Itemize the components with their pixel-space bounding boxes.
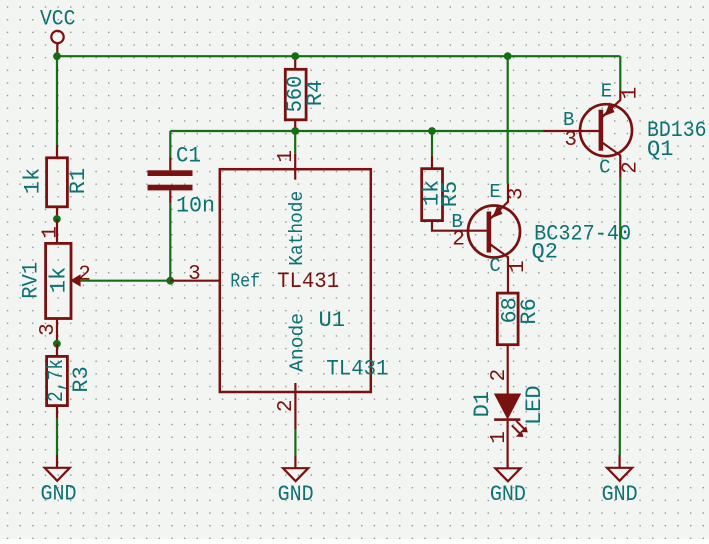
wire D1 to GND xyxy=(507,421,509,468)
svg-text:1: 1 xyxy=(275,150,298,163)
wire rail2 to Q1 base xyxy=(170,130,543,132)
junction top rail Q2 xyxy=(504,52,512,60)
junction wiper-C1-Ref node xyxy=(166,277,174,285)
svg-text:R4: R4 xyxy=(303,80,328,106)
wire R3 to GND xyxy=(56,418,58,455)
svg-text:TL431: TL431 xyxy=(326,357,388,382)
diode D1 LED xyxy=(470,369,547,444)
junction RV1-R3 node xyxy=(53,340,61,348)
D1 emission arrow 1 xyxy=(516,421,525,430)
svg-text:2: 2 xyxy=(488,369,511,382)
ground GND2 xyxy=(278,455,314,507)
svg-text:R5: R5 xyxy=(438,181,463,207)
svg-text:3: 3 xyxy=(188,263,201,286)
svg-text:2,7k: 2,7k xyxy=(44,359,69,402)
svg-text:Q2: Q2 xyxy=(532,240,558,265)
svg-text:R3: R3 xyxy=(69,366,94,392)
transistor Q2 BC327-40 xyxy=(451,181,631,293)
D1 emission arrow 2 xyxy=(512,425,521,434)
svg-text:1: 1 xyxy=(507,260,530,273)
svg-text:3: 3 xyxy=(37,323,60,336)
RV1 wiper arrow xyxy=(70,274,80,286)
wire top rail to Q2 emitter xyxy=(507,56,509,183)
U1 pin 2 Anode xyxy=(294,383,296,429)
Q1 emitter arrow xyxy=(604,102,614,116)
U1 pin 1 Kathode xyxy=(294,154,296,180)
junction R4 top xyxy=(291,52,299,60)
svg-text:GND: GND xyxy=(278,482,314,507)
resistor R4 xyxy=(283,56,328,131)
wire Q1 collector to GND xyxy=(619,177,622,455)
U1 pin 3 Ref lead xyxy=(170,280,220,282)
Q2 collector xyxy=(490,244,509,293)
wire top rail VCC xyxy=(57,55,620,57)
power flag VCC xyxy=(40,7,76,57)
svg-text:3: 3 xyxy=(564,129,577,152)
svg-text:R1: R1 xyxy=(66,168,91,194)
svg-text:C1: C1 xyxy=(176,143,201,168)
svg-text:R6: R6 xyxy=(517,298,542,324)
junction VCC node xyxy=(53,52,61,60)
svg-text:RV1: RV1 xyxy=(19,262,44,299)
svg-text:E: E xyxy=(489,181,500,203)
svg-text:GND: GND xyxy=(602,482,638,507)
resistor R1 xyxy=(21,145,92,219)
junction R1-RV1 node xyxy=(53,215,61,223)
svg-text:Kathode: Kathode xyxy=(286,191,308,266)
op-amp U1 TL431 xyxy=(170,150,388,429)
resistor R5 xyxy=(420,131,464,221)
capacitor C1 xyxy=(148,131,216,281)
Q2 emitter xyxy=(490,184,509,220)
junction R5 top xyxy=(428,127,436,135)
svg-text:U1: U1 xyxy=(319,308,346,333)
Q1 base bar xyxy=(599,110,604,151)
svg-text:10n: 10n xyxy=(176,193,215,218)
wire U1 pin2 to GND xyxy=(294,429,296,455)
svg-text:1k: 1k xyxy=(21,168,46,194)
svg-text:VCC: VCC xyxy=(40,7,76,32)
svg-text:Ref: Ref xyxy=(230,271,260,293)
svg-text:Anode: Anode xyxy=(286,313,308,372)
svg-text:C: C xyxy=(489,255,500,277)
svg-text:TL431: TL431 xyxy=(277,269,339,294)
svg-text:GND: GND xyxy=(41,482,77,507)
svg-text:GND: GND xyxy=(490,482,526,507)
svg-text:2: 2 xyxy=(619,161,642,174)
resistor R6 xyxy=(497,293,542,394)
svg-text:E: E xyxy=(601,80,612,102)
svg-text:1: 1 xyxy=(619,87,642,100)
svg-text:C: C xyxy=(599,156,610,178)
svg-text:D1: D1 xyxy=(470,391,495,417)
potentiometer RV1 xyxy=(19,219,91,344)
ground GND1 xyxy=(41,455,77,507)
wire VCC to R1 xyxy=(56,56,58,145)
Q1 base pin wire xyxy=(544,130,601,132)
transistor Q1 BD136 xyxy=(563,80,707,178)
resistor R3 xyxy=(44,344,94,419)
Q2 emitter arrow xyxy=(492,204,502,218)
junction R4 bottom xyxy=(291,127,299,135)
wire R4 junction to U1 pin1 xyxy=(294,131,296,154)
svg-text:3: 3 xyxy=(506,187,529,200)
ground GND4 xyxy=(602,455,638,507)
wire top rail corner to Q1 emitter xyxy=(619,56,621,90)
svg-text:Q1: Q1 xyxy=(647,137,673,162)
svg-text:1k: 1k xyxy=(46,267,71,293)
ground GND3 xyxy=(490,468,526,507)
svg-text:2: 2 xyxy=(78,264,91,287)
wire R5 to Q2 base xyxy=(432,221,487,231)
svg-text:1: 1 xyxy=(39,226,62,239)
svg-text:2: 2 xyxy=(275,399,298,412)
svg-text:B: B xyxy=(563,109,574,131)
wire RV1 wiper to Ref node xyxy=(81,280,171,282)
svg-text:LED: LED xyxy=(522,385,547,425)
svg-text:2: 2 xyxy=(452,228,465,251)
Q1 collector xyxy=(602,142,621,177)
Q1 emitter xyxy=(602,91,621,118)
Q2 base bar xyxy=(487,212,492,253)
